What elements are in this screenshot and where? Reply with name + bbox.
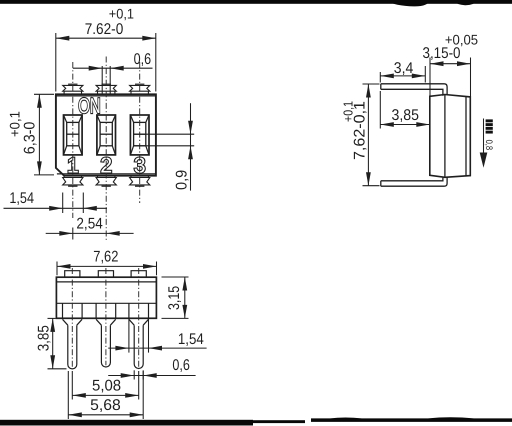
svg-text:3,4: 3,4 (394, 60, 414, 77)
svg-text:7.62-0: 7.62-0 (85, 21, 124, 38)
svg-text:5,08: 5,08 (92, 377, 121, 394)
svg-text:5,68: 5,68 (90, 397, 121, 414)
svg-text:+0,1: +0,1 (6, 111, 22, 137)
svg-text:ON: ON (78, 94, 100, 118)
svg-text:0,6: 0,6 (172, 357, 190, 374)
svg-text:+0,05: +0,05 (445, 31, 478, 47)
svg-text:3,15-0: 3,15-0 (423, 45, 461, 62)
svg-text:+0,1: +0,1 (109, 6, 134, 22)
svg-text:0,8: 0,8 (483, 140, 494, 151)
svg-text:0,6: 0,6 (134, 51, 152, 68)
svg-text:6,3-0: 6,3-0 (21, 121, 38, 154)
svg-text:7,62: 7,62 (93, 248, 118, 265)
svg-text:3,85: 3,85 (35, 325, 52, 351)
svg-text:3,15: 3,15 (166, 286, 183, 310)
svg-text:1,54: 1,54 (178, 331, 204, 348)
svg-text:+0,1: +0,1 (340, 101, 355, 122)
svg-text:1,54: 1,54 (9, 190, 34, 207)
svg-text:0,9: 0,9 (174, 170, 191, 190)
svg-text:2,54: 2,54 (76, 216, 103, 233)
svg-text:3,85: 3,85 (392, 107, 420, 124)
